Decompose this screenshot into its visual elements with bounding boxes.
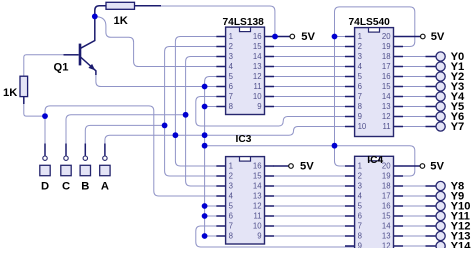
output circle Y3 [436,82,445,91]
wire chip2 pin13 to Y5 [403,106,426,108]
5V open circle chip2 [421,34,426,39]
transistor Q1 emitter arrow [88,64,95,71]
svg-text:16: 16 [253,162,262,171]
svg-text:18: 18 [382,182,391,191]
terminal D square [40,165,50,175]
node D/R2 junction [42,113,48,119]
svg-text:7: 7 [229,92,233,101]
wire chip4 pin18 to Y8 [403,185,426,187]
svg-text:1: 1 [229,162,233,171]
chip3 left pin stubs [216,166,226,236]
svg-text:IC3: IC3 [236,134,252,145]
svg-text:C: C [62,180,70,192]
chip4 notch [369,156,380,161]
wire node to 5V circle near chip1 pin16 [275,36,290,38]
wire chip1 pin10 to chip2 pin7 [274,96,345,98]
svg-text:5V: 5V [300,161,314,173]
svg-text:12: 12 [382,242,391,248]
wire chip1 pin11 to chip2 pin6 [274,86,345,88]
output circle Y6 [436,112,445,121]
chip2 right pin stubs [394,37,404,127]
output circle Y12 [436,221,445,230]
svg-text:7: 7 [229,222,233,231]
node bus204 A-row junction [202,132,208,138]
wire bus204 branch chip3 pin8 [205,235,217,237]
terminal A open circle [103,156,107,160]
svg-text:5V: 5V [431,31,445,43]
wire chip4 pin13 to Y13 [403,235,426,237]
svg-text:8: 8 [358,102,362,111]
output circle Y11 [436,211,445,220]
wire chip3 pin7 around bottom [196,226,354,247]
wire chip3 pin15 to chip4 pin2 [274,175,345,177]
svg-text:13: 13 [253,192,262,201]
transistor Q1 base lead dark segment [64,54,79,56]
output lead stubs Y0-Y7 [426,57,437,127]
svg-text:9: 9 [257,232,261,241]
wire bus204 branch chip1 pin6 [205,86,217,88]
output circle Y14 [436,241,445,250]
svg-text:20: 20 [382,32,391,41]
5V open circle chip1 [290,34,295,39]
wire chip3 pin16 to 5V [274,165,289,167]
terminal D open circle [43,156,47,160]
chip4 right pin stubs [394,166,404,246]
svg-text:6: 6 [229,82,233,91]
chip1 right pin stubs [265,37,275,107]
svg-text:4: 4 [229,192,234,201]
chip3 notch [240,157,251,162]
output circle Y5 [436,102,445,111]
svg-text:14: 14 [253,182,262,191]
svg-text:9: 9 [358,242,362,248]
wire R2 bottom to node D [24,104,45,117]
svg-text:11: 11 [383,122,391,131]
terminal C open circle [64,156,68,160]
node collector/R1 junction [92,14,98,20]
wire chip2 pin12 to Y6 [403,116,426,118]
wire chip2 pin18 to Y0 [403,56,426,58]
wire chip3 pin13 to chip4 pin4 [274,195,345,197]
svg-text:6: 6 [358,82,362,91]
svg-text:16: 16 [382,72,391,81]
svg-text:3: 3 [358,182,362,191]
resistor R2 body [20,76,28,96]
svg-text:3: 3 [229,182,233,191]
wire chip3 pin11 to chip4 pin6 [274,215,345,217]
wire chip4 pin12 to Y14 [403,245,426,247]
svg-text:15: 15 [382,212,391,221]
svg-text:17: 17 [382,192,391,201]
node bus334 row145 junction [332,143,338,149]
wire row145.7 from bus204 to chip4 pin19 [205,146,415,176]
wire chip1 pin15 to chip2 pin2 [274,46,345,48]
wire vertical bus x=334.5 top loop to chip2 pin19 [335,7,415,146]
svg-text:5V: 5V [301,31,315,43]
svg-text:7: 7 [358,92,362,101]
svg-text:19: 19 [382,172,391,181]
svg-text:D: D [41,180,49,192]
resistor R1 left lead [95,6,106,17]
resistor R1 right lead dark segment [135,5,162,7]
node bus334 chip2 pin1 junction [332,34,338,40]
node bus204 chip3 pin8 junction [202,233,208,239]
wire chip2 pin11 to Y7 [403,126,426,128]
svg-text:14: 14 [382,92,391,101]
svg-text:13: 13 [382,102,391,111]
output circle Y8 [436,181,445,190]
output circle Y4 [436,92,445,101]
output circle Y9 [436,191,445,200]
wire bus B chip1 pin2 to chip3 pin2 [165,47,217,177]
wire bus204 branch chip3 pin5 [205,205,217,207]
svg-text:6: 6 [358,212,362,221]
terminal A stub [104,144,106,156]
IC chip4 body [355,156,394,251]
wire bus334 to chip2 pin1 [335,36,346,38]
wire Q1 emitter to chip1 pin6 row [96,74,216,87]
svg-text:10: 10 [253,222,262,231]
wire terminal B up and right to bus B [85,125,164,145]
svg-text:8: 8 [229,232,233,241]
svg-text:7: 7 [358,222,362,231]
svg-text:18: 18 [382,52,391,61]
svg-text:2: 2 [358,42,362,51]
svg-text:1: 1 [358,32,362,41]
svg-text:4: 4 [229,62,234,71]
output circle Y2 [436,72,445,81]
terminal D stub [44,144,46,156]
svg-text:14: 14 [253,52,262,61]
svg-text:5: 5 [358,72,363,81]
chip1 notch [240,27,251,32]
resistor R2 bottom lead dark segment [23,97,25,104]
svg-text:74LS138: 74LS138 [223,17,265,28]
svg-text:9: 9 [257,102,261,111]
wire chip1 pin7 around to chip2 pin9 with jog [196,97,345,127]
svg-text:17: 17 [382,62,391,71]
terminal B square [80,165,90,175]
wire chip1 pin14 to chip2 pin3 [274,56,345,58]
svg-text:8: 8 [358,232,362,241]
svg-text:15: 15 [382,82,391,91]
svg-text:11: 11 [254,82,262,91]
wire bus204 branch chip1 pin8 [205,106,217,108]
chip3 right pin stubs [265,166,275,236]
svg-text:3: 3 [358,52,362,61]
wire bus204 chip1 pin5 down to chip3 pin8 [205,77,217,237]
svg-text:12: 12 [253,202,262,211]
svg-text:5: 5 [358,202,363,211]
svg-text:74LS540: 74LS540 [349,17,391,28]
svg-text:15: 15 [253,42,262,51]
node bus204 row145 junction [202,143,208,149]
wire Q1 base from resistor R2 top [24,55,64,76]
svg-text:10: 10 [253,92,262,101]
svg-text:14: 14 [382,222,391,231]
wire chip2 pin15 to Y3 [403,86,426,88]
wire bus204 branch chip3 pin6 [205,215,217,217]
chip2 left pin stubs [345,37,355,127]
node C bus junction [183,112,189,118]
svg-text:1: 1 [229,32,233,41]
wire bus A chip1 pin1 to chip3 pin1 [175,37,216,167]
resistor R1 body [106,2,135,9]
svg-text:9: 9 [358,112,362,121]
svg-text:1: 1 [358,162,362,171]
wire chip4 pin14 to Y12 [403,225,426,227]
IC chip3 body [226,157,265,244]
terminal C square [61,165,71,175]
wire chip4 pin15 to Y11 [403,215,426,217]
svg-text:5: 5 [229,72,234,81]
svg-text:12: 12 [382,112,391,121]
output circle Y1 [436,62,445,71]
wire terminal C up and right to bus C [66,115,186,145]
node bus204 pin6 junction [202,84,208,90]
node chip1 pin16 junction [272,34,278,40]
wire chip4 pin20 to 5V [403,165,420,167]
node bus204 chip3 pin6 junction [202,213,208,219]
svg-text:A: A [101,180,109,192]
node bus204 chip3 pin5 junction [202,203,208,209]
wire bus334 lower branch to chip4 pin1 [335,146,346,166]
svg-text:11: 11 [254,212,262,221]
svg-text:12: 12 [253,72,262,81]
5V open circle chip3 [289,164,294,169]
wire collector node to chip1 pin4 (W1) [97,17,216,67]
output circle Y7 [436,122,445,131]
wire chip3 pin14 to chip4 pin3 [274,185,345,187]
wire chip1 pin12 to chip2 pin5 [274,76,345,78]
svg-text:5: 5 [229,202,234,211]
svg-text:5V: 5V [430,161,444,173]
svg-text:1K: 1K [114,15,128,27]
wire chip2 pin17 to Y1 [403,66,426,68]
output lead stubs Y8-Y14 [426,186,437,246]
terminal A square [100,165,110,175]
svg-text:2: 2 [229,42,233,51]
svg-text:13: 13 [253,62,262,71]
svg-text:B: B [81,180,89,192]
wire chip1 pin13 to chip2 pin4 [274,66,345,68]
transistor Q1 emitter [81,57,96,75]
op-amp: none; IC chip1 74LS138 body [226,27,265,114]
output circle Y0 [436,52,445,61]
wire chip2 pin14 to Y4 [403,96,426,98]
wire chip2 pin16 to Y2 [403,76,426,78]
5V open circle chip4 [420,164,425,169]
svg-text:8: 8 [229,102,233,111]
wire chip3 pin10 to chip4 pin7 [274,225,345,227]
terminal C stub [65,144,67,156]
node B bus junction [162,123,168,129]
node bus204 pin8 junction [202,104,208,110]
wire terminal A row to chip2 pin10 with jog [105,127,345,146]
wire R1 right to chip1 pin16 node (top rail) [161,6,275,37]
svg-text:16: 16 [253,32,262,41]
terminal B open circle [83,156,87,160]
svg-text:13: 13 [382,232,391,241]
transistor Q1 base bar [79,44,82,66]
wire chip1 pin9 to chip2 pin8 [274,106,345,108]
IC chip2 74LS540 body [355,28,394,137]
svg-text:4: 4 [358,192,363,201]
terminal B stub [84,144,86,156]
chip1 left pin stubs [216,37,226,107]
svg-text:15: 15 [253,172,262,181]
svg-text:4: 4 [358,62,363,71]
chip4 left pin stubs [345,166,355,246]
svg-text:19: 19 [382,42,391,51]
svg-text:16: 16 [382,202,391,211]
wire chip3 pin9 to chip4 pin8 [274,235,345,237]
wire chip2 pin20 to 5V [403,36,420,38]
wire chip4 pin17 to Y9 [403,195,426,197]
svg-text:1K: 1K [3,87,17,99]
wire chip3 pin12 to chip4 pin5 [274,205,345,207]
svg-text:2: 2 [358,172,362,181]
svg-text:10: 10 [358,122,367,131]
svg-text:Q1: Q1 [54,62,69,74]
node A bus junction [173,132,179,138]
svg-text:Y14: Y14 [451,241,472,249]
chip2 notch [369,28,380,32]
svg-text:6: 6 [229,212,233,221]
output circle Y10 [436,201,445,210]
svg-text:Y7: Y7 [451,121,465,133]
wire chip4 pin16 to Y10 [403,205,426,207]
svg-text:20: 20 [382,162,391,171]
svg-text:2: 2 [229,172,233,181]
wire bus C chip1 pin3 to chip3 pin3 [186,57,217,187]
wire terminal D up to node [45,106,216,196]
svg-text:3: 3 [229,52,233,61]
output circle Y13 [436,231,445,240]
transistor Q1 collector [81,16,95,48]
